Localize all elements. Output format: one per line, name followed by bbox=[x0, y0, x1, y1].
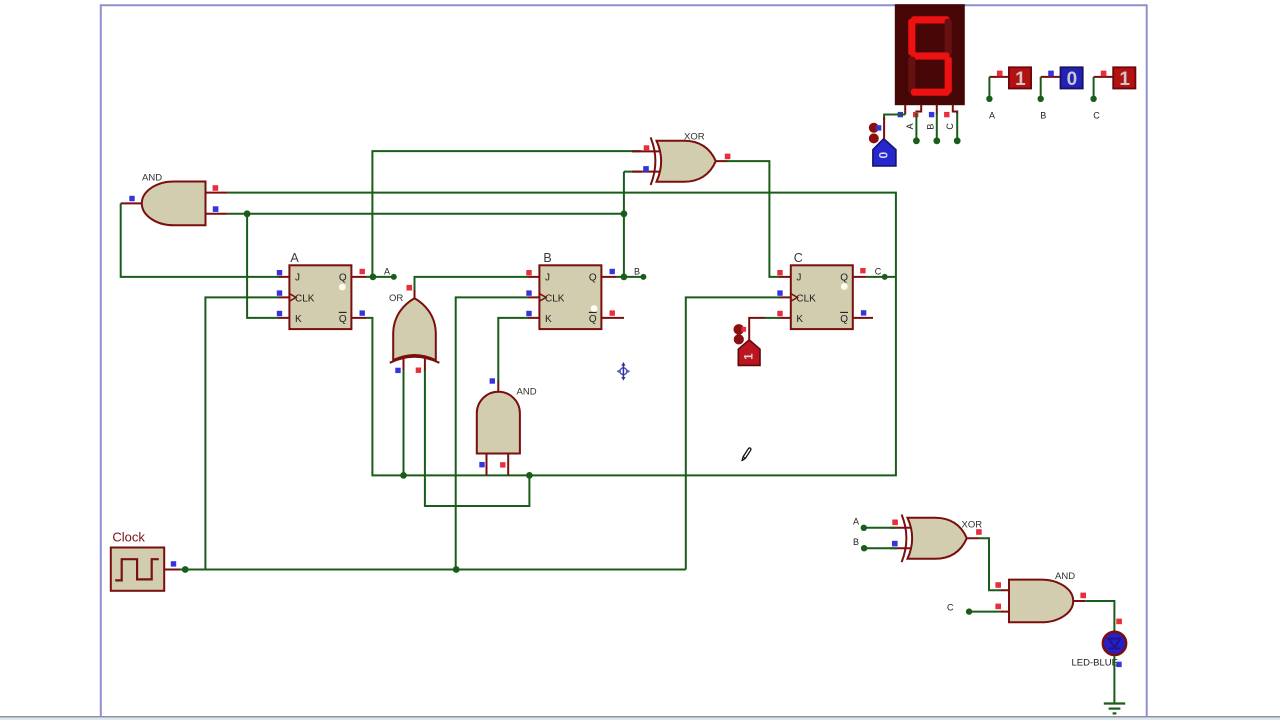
svg-text:K: K bbox=[796, 314, 803, 325]
logic probe C (1) bbox=[1090, 67, 1135, 120]
wire bus (AND1 in2 to FF B Q vertical) bbox=[228, 213, 624, 215]
wire display pin4 down bbox=[956, 113, 958, 141]
wire CLK of FF A to clock bus bbox=[205, 297, 278, 569]
svg-text:C: C bbox=[947, 603, 954, 613]
svg-text:A: A bbox=[853, 517, 859, 527]
junction dot Q_B bbox=[621, 274, 628, 281]
wire OR left input to bottom bus bbox=[403, 370, 405, 475]
JK flip-flop C (U3) bbox=[777, 251, 873, 329]
display pin 1 bbox=[904, 105, 906, 115]
junction dot pin4 bbox=[954, 137, 961, 144]
svg-text:A: A bbox=[290, 251, 299, 265]
wire OR right input loop to bus bbox=[425, 370, 530, 506]
svg-text:B: B bbox=[925, 124, 935, 130]
logic toggle 0 buttons bbox=[869, 123, 879, 133]
svg-text:AND: AND bbox=[517, 387, 537, 398]
wire XOR2 output to AND3 input bbox=[979, 538, 1001, 590]
junction dot clock B bbox=[453, 566, 460, 573]
svg-text:CLK: CLK bbox=[295, 293, 315, 304]
wire FF B Q vertical (XOR in B / bus / Q_B) bbox=[616, 172, 643, 277]
wire CLK of FF C to clock bus bbox=[686, 297, 780, 569]
junction dot bbox=[244, 210, 251, 217]
wire display pin2 down bbox=[915, 113, 917, 141]
wire LED to ground bbox=[1113, 656, 1115, 703]
logic toggle 0 (blue) pin bbox=[883, 117, 885, 139]
svg-text:0: 0 bbox=[877, 152, 891, 159]
JK flip-flop B (U2) bbox=[526, 251, 624, 329]
move cursor icon bbox=[616, 362, 630, 381]
svg-text:1: 1 bbox=[744, 353, 756, 360]
junction dot pin3 bbox=[933, 137, 940, 144]
junction dot bus2 bbox=[621, 210, 628, 217]
svg-text:J: J bbox=[545, 273, 550, 284]
OR gate (pointing up) bbox=[389, 285, 439, 373]
logic probe B (0) bbox=[1038, 67, 1083, 120]
svg-text:Q: Q bbox=[589, 314, 597, 325]
logic toggle 0 body bbox=[873, 139, 896, 166]
svg-text:C: C bbox=[1093, 111, 1100, 121]
wire AND3 output to LED bbox=[1085, 601, 1114, 631]
AND gate (middle, pointing up) bbox=[477, 378, 537, 475]
junction dot bbox=[400, 472, 407, 479]
svg-text:Q: Q bbox=[339, 314, 347, 325]
wire display pin3 down bbox=[936, 113, 938, 141]
XOR gate (top, pointing right) bbox=[632, 131, 730, 185]
wire AND1 output to J of FF A bbox=[121, 203, 279, 277]
svg-text:CLK: CLK bbox=[545, 293, 565, 304]
junction dot bbox=[526, 472, 533, 479]
wire terminal C to AND3 bbox=[971, 611, 1001, 613]
svg-text:B: B bbox=[1040, 111, 1046, 121]
svg-text:Q: Q bbox=[339, 273, 347, 284]
svg-text:XOR: XOR bbox=[684, 131, 705, 142]
svg-text:C: C bbox=[794, 251, 803, 265]
svg-text:Q: Q bbox=[840, 314, 848, 325]
junction dot Q_A bbox=[370, 274, 377, 281]
svg-text:A: A bbox=[905, 123, 915, 129]
svg-text:AND: AND bbox=[142, 173, 162, 184]
svg-text:Q: Q bbox=[840, 273, 848, 284]
svg-text:J: J bbox=[796, 273, 801, 284]
junction dot pin2 bbox=[913, 137, 920, 144]
wire bus top (AND1 in1 - right side - bottom bus) bbox=[228, 193, 896, 476]
JK flip-flop A (U1) bbox=[277, 251, 366, 329]
AND gate (top-left, mirrored) bbox=[121, 173, 228, 226]
svg-text:Q: Q bbox=[589, 273, 597, 284]
ground symbol bbox=[1104, 704, 1125, 714]
svg-text:OR: OR bbox=[389, 293, 403, 304]
svg-text:Clock: Clock bbox=[112, 530, 145, 545]
svg-text:1: 1 bbox=[1015, 69, 1026, 90]
XOR gate (bottom-right) bbox=[890, 515, 982, 563]
svg-text:AND: AND bbox=[1055, 571, 1075, 582]
wire branch to K of FF A bbox=[247, 214, 278, 318]
display pin 4 bbox=[953, 105, 957, 115]
7-segment display DISP1 bbox=[895, 4, 965, 105]
LED-BLUE D1 bbox=[1072, 619, 1127, 669]
wire toggle 1 to K of FF C bbox=[749, 318, 765, 340]
wire display pin1 to toggle bbox=[884, 115, 905, 121]
clock generator CLK1 bbox=[111, 530, 180, 591]
svg-text:C: C bbox=[945, 123, 955, 130]
svg-text:C: C bbox=[875, 266, 882, 276]
wire OR output to J of FF B bbox=[415, 277, 529, 290]
wire Q_A to XOR input A bbox=[366, 151, 641, 277]
svg-text:K: K bbox=[545, 314, 552, 325]
pencil cursor icon bbox=[742, 448, 751, 461]
svg-text:B: B bbox=[543, 251, 551, 265]
AND gate (bottom-right) bbox=[995, 571, 1086, 623]
junction dot clock bbox=[182, 566, 189, 573]
wire terminal B to XOR2 bbox=[865, 547, 897, 549]
logic probe A (1) bbox=[986, 67, 1031, 120]
wire AND2 output to K of FF B bbox=[498, 318, 528, 382]
svg-text:CLK: CLK bbox=[796, 293, 816, 304]
svg-text:A: A bbox=[384, 266, 390, 276]
svg-text:LED-BLUE: LED-BLUE bbox=[1072, 657, 1118, 668]
svg-text:K: K bbox=[295, 314, 302, 325]
wire terminal A to XOR2 bbox=[865, 527, 897, 529]
svg-text:1: 1 bbox=[1119, 69, 1130, 90]
wire Q_C to right bus bbox=[867, 276, 896, 278]
clock bus wire bbox=[178, 569, 686, 571]
svg-text:B: B bbox=[634, 266, 640, 276]
svg-text:J: J bbox=[295, 273, 300, 284]
svg-text:XOR: XOR bbox=[962, 519, 983, 530]
svg-text:A: A bbox=[989, 111, 995, 121]
display pin state squares bbox=[898, 112, 903, 117]
svg-text:0: 0 bbox=[1067, 69, 1078, 90]
wire XOR output to J of FF C bbox=[726, 161, 780, 277]
display pin 2 bbox=[916, 105, 921, 115]
svg-text:B: B bbox=[853, 537, 859, 547]
display pin 3 bbox=[936, 105, 938, 115]
logic toggle 1 (red) near FF C bbox=[734, 324, 761, 365]
wire CLK of FF B to clock bus bbox=[456, 297, 529, 569]
